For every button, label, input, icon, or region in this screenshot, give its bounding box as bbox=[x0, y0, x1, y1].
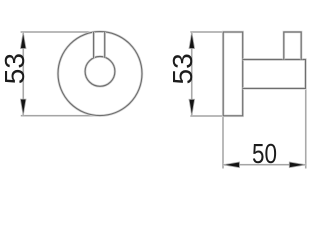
svg-text:50: 50 bbox=[252, 138, 277, 169]
dimension 53 right: bottom extension line bbox=[190, 115, 223, 117]
side view peg bbox=[284, 32, 301, 60]
dimension 53 right: top extension line bbox=[190, 31, 223, 33]
dimension 50: right arrowhead bbox=[289, 162, 306, 168]
dimension 50: left extension line bbox=[222, 116, 224, 169]
side view wall plate bbox=[223, 32, 243, 116]
dimension 53 right: bottom arrowhead bbox=[189, 99, 195, 116]
dimension 53 left: top extension line bbox=[21, 31, 105, 33]
dimension 50: dimension line bbox=[223, 164, 306, 166]
front view outer circle bbox=[58, 32, 142, 116]
dimension 50: left arrowhead bbox=[223, 162, 240, 168]
side view arm bbox=[243, 60, 306, 89]
front view inner circle bbox=[85, 57, 115, 87]
dimension 53 left: top arrowhead bbox=[20, 32, 26, 49]
front view peg slot right line bbox=[103, 32, 106, 58]
svg-text:53: 53 bbox=[167, 53, 198, 84]
dimension 53 right: top arrowhead bbox=[189, 32, 195, 49]
dimension 53 left: dimension line bbox=[22, 32, 24, 116]
front view peg slot left line bbox=[92, 32, 95, 58]
svg-text:53: 53 bbox=[0, 53, 30, 84]
dimension 53 left: bottom arrowhead bbox=[20, 99, 26, 116]
dimension 53 right: dimension line bbox=[191, 32, 193, 116]
dimension 50: right extension line bbox=[305, 88, 307, 168]
dimension 53 left: bottom extension line bbox=[21, 115, 100, 117]
